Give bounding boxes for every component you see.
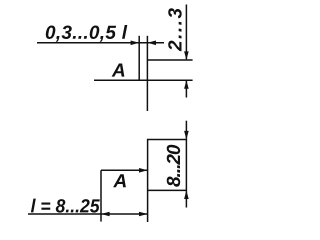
- label A (top figure): [112, 64, 125, 77]
- upper plate top edge C: [147, 59, 192, 61]
- arrow left at V2: [147, 41, 156, 46]
- rotated dim text 8...20: [167, 145, 180, 187]
- arrow right at V1: [131, 41, 140, 46]
- label A (bottom figure): [113, 174, 126, 187]
- lower plate edge D (leader of A): [94, 79, 193, 81]
- arrow left at riser: [101, 212, 110, 217]
- arrow down at line C: [184, 51, 189, 60]
- vertical dimension line 8...20 upper segment: [185, 121, 187, 139]
- bottom dimension line (l = 8...25): [28, 213, 148, 215]
- arrow right at rect left edge (leader A): [139, 168, 148, 173]
- gap dimension line (0,3...0,5 l): [37, 42, 164, 44]
- dim text l = 8...25: [31, 199, 100, 213]
- leader riser: [100, 170, 102, 221]
- arrow up at line D: [184, 80, 189, 89]
- lap plate rectangle (detail A): [148, 140, 187, 223]
- leader line of label A: [101, 169, 147, 171]
- vertical dimension line 2...3 lower segment: [185, 81, 187, 98]
- extension line / plate edge V1: [138, 36, 140, 80]
- dim text 0,3...0,5 l: [46, 25, 128, 42]
- vertical dimension line 8...20 lower segment: [185, 191, 187, 207]
- rotated dim text 2...3: [168, 8, 181, 51]
- arrow up at rect bottom: [184, 190, 189, 199]
- vertical dimension line 2...3 upper segment: [185, 5, 187, 60]
- extension line / plate edge V2: [146, 36, 148, 111]
- arrow down at rect top: [184, 131, 189, 140]
- arrow right at rect-left extension: [139, 212, 148, 217]
